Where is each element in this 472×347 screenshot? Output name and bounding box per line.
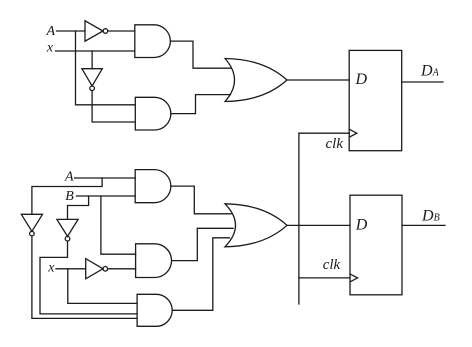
svg-text:DA: DA (420, 63, 440, 80)
OR gate O1 (225, 59, 287, 102)
wire A to inverter U1 input (57, 30, 86, 32)
wire A branch to inverter U4 input (32, 178, 102, 214)
wire clk to FF2 (299, 277, 350, 279)
flip-flop FF2 (350, 195, 402, 295)
wire G2 output to OR O1 input 2 (171, 95, 231, 114)
wire FF1 Q output (402, 81, 443, 83)
wire FF2 Q output (402, 224, 445, 226)
wire G1 output to OR O1 input 1 (170, 41, 231, 68)
wire U2 output to AND G2 input 2 (92, 91, 135, 122)
wire x branch down to inverter U2 input (91, 51, 93, 69)
svg-text:x: x (46, 41, 54, 56)
clock chevron of FF2 (350, 274, 358, 282)
wire B branch down to AND G4 input 1 (101, 196, 136, 254)
svg-text:clk: clk (323, 257, 341, 273)
wire G5 output to OR O2 input 3 (173, 238, 229, 310)
wire U1 output to AND G1 input 1 (108, 30, 135, 32)
wire G3 output to OR O2 input 1 (171, 186, 231, 214)
flip-flop FF1 (349, 50, 402, 150)
wire O2 output to flip-flop FF2 D input (287, 224, 350, 226)
AND gate G4 (136, 244, 172, 278)
wire x branch down to AND G5 input 1 (68, 269, 137, 304)
svg-text:D: D (355, 217, 368, 234)
inverter U4 (points down) (21, 214, 42, 236)
inverter U6 (86, 259, 108, 279)
svg-text:D: D (355, 71, 368, 88)
wire U4 output to AND G5 input 3 (32, 236, 137, 318)
AND gate G3 (135, 170, 171, 203)
AND gate G2 (135, 97, 171, 130)
inverter U2 (points down) (82, 69, 102, 91)
svg-text:B: B (65, 189, 74, 204)
inverter U5 (points down) (57, 219, 78, 241)
AND gate G1 (135, 25, 171, 58)
wire A branch down to AND G2 input 1 (76, 31, 136, 105)
wire U5 output to AND G5 input 2 (40, 241, 137, 314)
wire x to inverter U6 input (56, 268, 86, 270)
clock chevron of FF1 (349, 129, 357, 137)
wire x to AND G1 input 2 (56, 50, 135, 52)
svg-text:x: x (47, 261, 55, 276)
wire O1 output to flip-flop FF1 D input (287, 79, 349, 81)
svg-text:A: A (64, 169, 74, 184)
wire B branch to inverter U5 input (68, 196, 89, 219)
wire clk to FF1 (299, 132, 349, 134)
wire G4 output to OR O2 input 2 (172, 228, 233, 260)
svg-text:clk: clk (326, 136, 344, 152)
inverter U1 (85, 21, 108, 41)
wire clk vertical trunk (298, 133, 300, 304)
wire B to AND G3 input 2 (77, 195, 136, 197)
wire U6 output to AND G4 input 2 (108, 268, 136, 270)
OR gate O2 (225, 204, 287, 247)
svg-text:DB: DB (421, 207, 440, 224)
wire A to AND G3 input 1 (75, 177, 136, 179)
AND gate G5 (137, 294, 172, 326)
svg-text:A: A (46, 24, 56, 39)
